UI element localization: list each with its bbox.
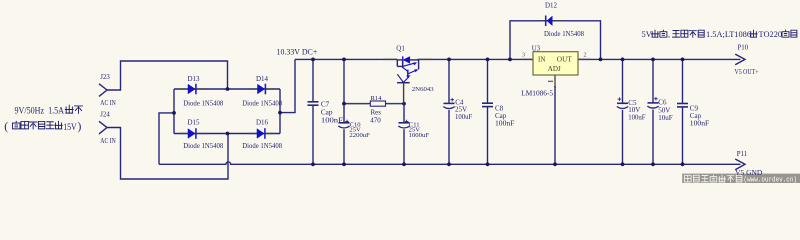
svg-text:2: 2 <box>584 52 587 58</box>
annotation: 5V output note top right <box>642 30 797 40</box>
junction C9 bottom <box>681 162 685 166</box>
svg-text:ADJ: ADJ <box>548 65 561 73</box>
svg-text:C6: C6 <box>658 99 667 107</box>
capacitor C5 <box>617 59 646 164</box>
junction D12 left <box>508 58 512 62</box>
svg-text:P11: P11 <box>737 151 747 158</box>
regulator U3 LM1086-5 <box>521 46 591 98</box>
svg-text:D13: D13 <box>188 75 201 83</box>
diode D13 <box>183 75 223 107</box>
svg-text:1000uF: 1000uF <box>409 132 430 139</box>
junction C6 bottom <box>651 162 655 166</box>
junction D12 right <box>599 58 603 62</box>
svg-text:Cap: Cap <box>321 108 333 116</box>
svg-text:3: 3 <box>522 52 525 58</box>
wire J24 under bridge <box>107 128 228 180</box>
junction C6 top <box>651 58 655 62</box>
wire DC+ filtered rail <box>417 58 533 60</box>
pin stubs row 2 <box>180 133 206 135</box>
capacitor C11 <box>398 104 429 165</box>
svg-text:V5 GND: V5 GND <box>735 170 762 177</box>
svg-text:Res: Res <box>371 108 382 116</box>
junction R14 right node <box>402 102 406 106</box>
junction row1 AC node <box>226 87 230 91</box>
svg-text:Diode 1N5408: Diode 1N5408 <box>242 142 282 150</box>
svg-text:100nF: 100nF <box>495 119 515 127</box>
wire bridge right bus to DC+ rail <box>280 59 295 133</box>
junction bridge plus node <box>278 111 282 115</box>
svg-text:D12: D12 <box>545 1 558 9</box>
svg-text:R14: R14 <box>371 95 383 102</box>
capacitor C10 <box>338 59 370 164</box>
wire DC+ raw rail <box>295 58 397 60</box>
junction C10 top <box>342 58 346 62</box>
capacitor C7 <box>308 59 343 164</box>
wire 5V OUT rail <box>578 58 741 60</box>
junction C5 top <box>621 58 625 62</box>
svg-text:TO220: TO220 <box>759 30 783 39</box>
wire bridge left bus <box>159 89 174 164</box>
svg-text:Diode 1N5408: Diode 1N5408 <box>242 99 282 107</box>
svg-text:1.5A;LT1086: 1.5A;LT1086 <box>706 30 751 39</box>
resistor R14 <box>370 95 385 124</box>
junction C8 top <box>486 58 490 62</box>
svg-text:470: 470 <box>370 116 381 124</box>
svg-text:10.33V DC+: 10.33V DC+ <box>277 47 318 56</box>
junction C9 top <box>681 58 685 62</box>
diode D15 <box>183 118 223 150</box>
junction C4 top <box>447 58 451 62</box>
diode D16 <box>242 118 282 150</box>
junction R14 left node <box>342 102 346 106</box>
junction C10 bottom <box>342 162 346 166</box>
svg-text:5V: 5V <box>642 30 652 39</box>
svg-text:100uF: 100uF <box>455 113 472 121</box>
svg-text:Diode 1N5408: Diode 1N5408 <box>183 142 223 150</box>
svg-text:OUT: OUT <box>557 56 573 64</box>
svg-text:9V/50Hz 1.5A: 9V/50Hz 1.5A <box>15 106 65 116</box>
port P10 V5 OUT+ <box>735 45 759 76</box>
capacitor C8 <box>482 59 515 164</box>
wire bridge row 2 <box>174 133 280 135</box>
watermark bottom right <box>682 174 800 185</box>
junction C8 bottom <box>486 162 490 166</box>
svg-text:IN: IN <box>538 56 545 64</box>
diode D14 <box>242 75 282 107</box>
svg-text:(: ( <box>4 121 8 133</box>
svg-text:AC IN: AC IN <box>100 100 116 107</box>
svg-text:2N6043: 2N6043 <box>412 86 434 93</box>
annotation: no-load must not exceed 15V note <box>4 121 81 133</box>
svg-text:LM1086-5: LM1086-5 <box>521 90 553 98</box>
junction ADJ bottom <box>553 162 557 166</box>
svg-text:D15: D15 <box>188 118 201 126</box>
svg-text:V5 OUT+: V5 OUT+ <box>735 69 759 76</box>
capacitor C4 <box>443 59 472 164</box>
svg-text:D16: D16 <box>256 118 269 126</box>
pin stubs row 1 <box>180 88 206 90</box>
svg-text:15V: 15V <box>63 122 77 132</box>
svg-text:100uF: 100uF <box>628 114 645 122</box>
junction C5 bottom <box>621 162 625 166</box>
junction C11 bottom <box>402 162 406 166</box>
wire C10 tap to R14 to base node <box>344 103 370 105</box>
svg-text:J24: J24 <box>100 111 110 118</box>
junction C4 bottom <box>447 162 451 166</box>
wire GND rail with hop over J24 riser <box>159 162 741 164</box>
svg-text:Diode 1N5408: Diode 1N5408 <box>544 30 584 38</box>
junction row2 AC node <box>226 132 230 136</box>
capacitor C9 <box>677 59 709 164</box>
capacitor C6 <box>647 59 672 164</box>
svg-text:D14: D14 <box>256 75 269 83</box>
svg-text:100nF: 100nF <box>690 119 710 127</box>
svg-text:AC IN: AC IN <box>100 138 116 145</box>
connector J24 <box>99 111 116 144</box>
svg-text:,: , <box>668 30 670 39</box>
wire J23 to bridge top <box>107 61 228 90</box>
junction bridge minus node <box>172 111 176 115</box>
diode D12 across regulator <box>510 1 601 59</box>
port P11 V5 GND <box>735 151 747 170</box>
svg-text:10uF: 10uF <box>658 114 673 122</box>
svg-text:P10: P10 <box>738 45 749 52</box>
connector J23 <box>99 74 116 107</box>
svg-text:U3: U3 <box>532 46 541 53</box>
annotation: 9V/50Hz 1.5A input note <box>15 105 83 117</box>
svg-text:J23: J23 <box>100 74 110 81</box>
wire ADJ to ground <box>554 86 556 164</box>
junction C7 bottom <box>311 162 315 166</box>
transistor Q1 2N6043 darlington with diode <box>383 45 434 104</box>
junction C7 top <box>311 58 315 62</box>
svg-text:Diode 1N5408: Diode 1N5408 <box>183 99 223 107</box>
svg-text:2200uF: 2200uF <box>349 132 370 139</box>
wire bridge row 1 <box>174 88 280 90</box>
svg-text:Q1: Q1 <box>396 45 405 53</box>
svg-text:): ) <box>78 121 82 133</box>
svg-text:(www.ourdev.cn): (www.ourdev.cn) <box>744 176 798 184</box>
